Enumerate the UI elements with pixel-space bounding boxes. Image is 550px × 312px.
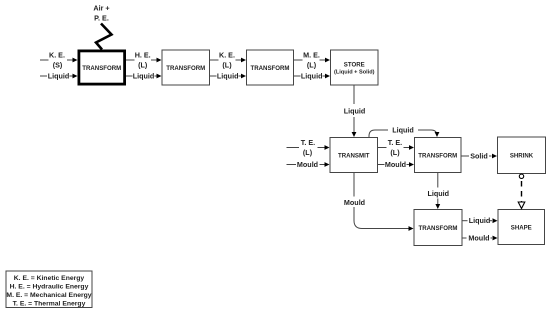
svg-text:Liquid: Liquid xyxy=(344,107,366,116)
block TRANSMIT xyxy=(330,138,378,173)
svg-text:(S): (S) xyxy=(53,60,63,69)
block SHRINK xyxy=(498,137,546,174)
svg-text:SHAPE: SHAPE xyxy=(511,224,532,231)
wire Mould TRANSFORM-5 to SHAPE xyxy=(463,237,467,239)
svg-text:Mould: Mould xyxy=(468,234,489,243)
zigzag wire Air+P.E. into TRANSFORM-1 xyxy=(96,24,112,50)
svg-text:Mould: Mould xyxy=(297,160,318,169)
svg-text:TRANSFORM: TRANSFORM xyxy=(82,65,121,72)
svg-text:(L): (L) xyxy=(303,148,313,157)
wire T.E.(L) TRANSMIT to TRANSFORM-4 xyxy=(378,147,387,149)
block TRANSFORM-3 xyxy=(247,50,294,85)
wire Liquid TRANSFORM-5 to SHAPE xyxy=(463,220,468,222)
svg-text:P. E.: P. E. xyxy=(94,14,109,23)
wire Liquid TRANSFORM-3 to STORE xyxy=(294,75,301,77)
svg-text:TRANSFORM: TRANSFORM xyxy=(418,152,457,159)
svg-text:K. E.: K. E. xyxy=(219,50,235,59)
svg-text:Air +: Air + xyxy=(93,4,109,13)
svg-text:H. E.: H. E. xyxy=(135,50,151,59)
block TRANSFORM-5 xyxy=(414,210,462,246)
svg-text:Mould: Mould xyxy=(344,198,365,207)
svg-text:T. E.: T. E. xyxy=(301,138,315,147)
svg-text:K. E.: K. E. xyxy=(49,50,65,59)
svg-text:Liquid: Liquid xyxy=(301,72,323,81)
svg-text:M. E. = Mechanical Energy: M. E. = Mechanical Energy xyxy=(6,292,91,299)
svg-text:(L): (L) xyxy=(307,60,317,69)
svg-text:TRANSMIT: TRANSMIT xyxy=(338,152,370,159)
svg-text:H. E. = Hydraulic Energy: H. E. = Hydraulic Energy xyxy=(10,284,89,291)
svg-text:Solid: Solid xyxy=(470,152,488,161)
svg-text:Liquid: Liquid xyxy=(48,72,70,81)
block SHAPE xyxy=(498,210,545,245)
svg-text:TRANSFORM: TRANSFORM xyxy=(419,225,458,232)
svg-text:M. E.: M. E. xyxy=(303,50,320,59)
wire input T.E.(L) into TRANSMIT xyxy=(287,147,300,149)
svg-text:TRANSFORM: TRANSFORM xyxy=(251,65,290,72)
wire input K.E.(S) into TRANSFORM-1 xyxy=(40,59,49,61)
svg-text:(Liquid + Solid): (Liquid + Solid) xyxy=(334,70,375,76)
wire Liquid TRANSFORM-4 down to TRANSFORM-5 xyxy=(437,173,439,188)
svg-text:(L): (L) xyxy=(390,148,400,157)
wire Mould TRANSMIT to TRANSFORM-4 xyxy=(378,164,385,166)
wire K.E.(L) TRANSFORM-2 to TRANSFORM-3 xyxy=(210,59,219,61)
wire Solid TRANSFORM-4 to SHRINK xyxy=(462,155,470,157)
svg-text:Liquid: Liquid xyxy=(469,216,491,225)
svg-text:Mould: Mould xyxy=(385,160,406,169)
wire Mould TRANSMIT down and right to TRANSFORM-5 xyxy=(353,173,355,197)
svg-text:SHRINK: SHRINK xyxy=(510,153,534,160)
legend box of energy abbreviations xyxy=(6,271,92,308)
block TRANSFORM-4 xyxy=(415,138,462,173)
wire Liquid TRANSFORM-1 to TRANSFORM-2 xyxy=(126,75,133,77)
wire Liquid STORE down to TRANSMIT xyxy=(353,86,355,105)
wire Liquid TRANSFORM-2 to TRANSFORM-3 xyxy=(210,75,217,77)
wire input Mould into TRANSMIT xyxy=(287,164,297,166)
svg-text:K. E. = Kinetic Energy: K. E. = Kinetic Energy xyxy=(14,275,85,282)
wire Liquid loop TRANSMIT top to TRANSFORM-4 top xyxy=(369,130,388,137)
svg-text:Liquid: Liquid xyxy=(133,72,155,81)
svg-text:STORE: STORE xyxy=(344,61,365,68)
wire input Liquid into TRANSFORM-1 xyxy=(40,75,47,77)
svg-text:T. E.: T. E. xyxy=(388,138,402,147)
block STORE (Liquid + Solid) xyxy=(331,50,379,85)
wire M.E.(L) TRANSFORM-3 to STORE xyxy=(294,59,303,61)
svg-text:Liquid: Liquid xyxy=(392,126,414,135)
svg-text:Liquid: Liquid xyxy=(428,189,450,198)
block TRANSFORM-1 (pump, bold system boundary) xyxy=(79,51,125,84)
wire H.E.(L) TRANSFORM-1 to TRANSFORM-2 xyxy=(126,59,135,61)
svg-text:(L): (L) xyxy=(222,60,232,69)
svg-text:TRANSFORM: TRANSFORM xyxy=(166,65,205,72)
block TRANSFORM-2 xyxy=(162,50,210,85)
wire dashed SHRINK to SHAPE with circle origin and open arrow xyxy=(519,174,523,178)
svg-text:T. E. = Thermal Energy: T. E. = Thermal Energy xyxy=(13,301,86,308)
svg-text:Liquid: Liquid xyxy=(217,72,239,81)
svg-text:(L): (L) xyxy=(138,60,148,69)
